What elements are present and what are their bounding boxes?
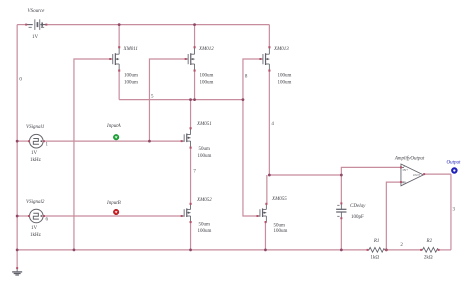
svg-text:100um: 100um [278, 73, 292, 78]
wire left vertical (net 0) [16, 25, 18, 250]
transistor XM052 (NMOS) [182, 204, 191, 222]
junction node4 T [268, 174, 271, 177]
svg-text:XM052: XM052 [196, 198, 212, 203]
svg-text:50um: 50um [274, 224, 286, 229]
wire XM055 source to ground rail [264, 222, 266, 250]
wire node4 horizontal to cap junction [269, 174, 341, 176]
junction top rail XM012 [193, 23, 196, 26]
svg-text:VSignal1: VSignal1 [26, 125, 44, 130]
pin square op-amp plus [400, 166, 402, 168]
pin square XM011 source [118, 46, 120, 48]
wire ground stub [16, 250, 18, 268]
wire battery left lead to left vertical [17, 24, 26, 26]
probe InputA [113, 134, 119, 140]
wire node2 between R1 and R2 [386, 249, 421, 251]
junction cap top T [340, 174, 343, 177]
svg-text:XM055: XM055 [271, 197, 287, 202]
pin square XM012 source [194, 46, 196, 48]
svg-text:VSignal2: VSignal2 [26, 200, 45, 205]
pin square VSignal1 right [43, 140, 45, 142]
op-amp plus glyph [403, 164, 421, 184]
junction rail cap bottom [340, 249, 343, 252]
svg-text:1kHz: 1kHz [30, 233, 42, 238]
source VSignal1 [30, 134, 44, 148]
pin square CDelay bottom [340, 217, 342, 219]
pin square R1 right [385, 249, 387, 251]
svg-text:R2: R2 [426, 239, 433, 244]
svg-text:8: 8 [245, 75, 248, 80]
probe InputB [113, 209, 119, 215]
source VSignal2 [30, 209, 44, 223]
resistor R1 [368, 247, 386, 252]
pin square ground [16, 267, 18, 269]
pin square XM013 drain [268, 70, 270, 72]
junction left vertical VSignal2 [16, 215, 19, 218]
wire XM011 gate loop to ground [74, 59, 110, 250]
svg-text:50um: 50um [199, 147, 211, 152]
junction node5 XM051 drain [189, 98, 192, 101]
svg-text:100um: 100um [124, 73, 138, 78]
transistor XM012 (PMOS) [186, 47, 195, 70]
pin square XM051 source [190, 147, 192, 149]
junction node5 XM012 drain [193, 98, 196, 101]
svg-text:100um: 100um [274, 229, 288, 234]
pin square XM011 gate [109, 58, 111, 60]
wire cap top lead [340, 175, 342, 204]
junction rail XM011 gate ground [73, 249, 76, 252]
svg-text:100um: 100um [200, 80, 214, 85]
pin square XM055 drain [265, 203, 267, 205]
wire InputA line [44, 140, 182, 142]
wire XM011 source to rail [118, 25, 120, 47]
svg-text:4: 4 [271, 122, 274, 127]
pin square VSignal2 left [28, 215, 30, 217]
capacitor CDelay [336, 203, 346, 218]
wire XM055 drain to node4 [266, 175, 268, 204]
svg-text:InputB: InputB [106, 201, 121, 206]
pin square op-amp minus [400, 181, 402, 183]
pin square op-amp out [423, 173, 425, 175]
svg-text:5: 5 [151, 95, 154, 100]
svg-text:XM051: XM051 [196, 122, 212, 127]
battery VSource [26, 19, 46, 30]
svg-text:IN-: IN- [403, 180, 408, 184]
pin square XM055 source [265, 221, 267, 223]
junction node2 feedback [385, 249, 388, 252]
junction rail XM052 source [189, 249, 192, 252]
svg-text:VSource: VSource [28, 9, 46, 14]
svg-text:100um: 100um [278, 80, 292, 85]
wire R2 right to output vertical [438, 249, 451, 251]
svg-text:100um: 100um [124, 80, 138, 85]
ground [12, 268, 22, 275]
svg-text:CDelay: CDelay [350, 204, 366, 209]
transistor XM011 (PMOS) [110, 47, 119, 70]
probe Output [452, 168, 456, 172]
svg-text:1V: 1V [31, 151, 38, 156]
svg-text:100um: 100um [198, 154, 212, 159]
svg-text:XM013: XM013 [273, 47, 289, 52]
wire XM012 gate loop to InputA [149, 59, 185, 141]
wire XM012 source to rail [194, 25, 196, 47]
svg-text:XM011: XM011 [123, 47, 138, 52]
pin square XM055 gate [256, 215, 258, 217]
plus mark VSignal2 [41, 215, 43, 217]
pin square XM051 drain [190, 127, 192, 129]
wire VSignal1 left lead [17, 140, 29, 142]
wire XM051 source to XM052 drain node 7 [190, 148, 192, 204]
wire op-amp minus feedback to node2 [386, 182, 401, 250]
wire XM013 gate loop node 8 to XM055 gate [243, 59, 260, 216]
svg-text:XM012: XM012 [198, 47, 214, 52]
pin square battery right [45, 24, 47, 26]
pin square R2 left [420, 249, 422, 251]
wire XM013 drain to node4 junction [268, 71, 270, 175]
wire XM013 source to rail [268, 25, 270, 47]
wire cap bottom to ground rail [340, 218, 342, 250]
svg-text:1kHz: 1kHz [30, 158, 42, 163]
op-amp U1 AmplifyOutput [401, 164, 423, 186]
pin square R2 right [438, 249, 440, 251]
svg-text:100pF: 100pF [351, 215, 364, 220]
svg-text:3: 3 [453, 208, 456, 213]
pin square XM011 drain [118, 70, 120, 72]
wire node 5 horizontal [119, 99, 243, 101]
wire XM052 source to ground rail [190, 222, 192, 250]
svg-text:IN+: IN+ [403, 168, 409, 172]
junction node5 node8 vertical [242, 98, 245, 101]
pin square XM012 gate [185, 58, 187, 60]
svg-text:100um: 100um [198, 229, 212, 234]
svg-text:OUT: OUT [413, 173, 421, 177]
junction top rail XM011 [118, 23, 121, 26]
pin square VSignal1 left [28, 140, 30, 142]
svg-text:1V: 1V [31, 226, 38, 231]
svg-text:InputA: InputA [106, 124, 122, 129]
pin square battery left [25, 24, 27, 26]
pin square XM013 gate [259, 58, 261, 60]
pin square XM052 drain [190, 203, 192, 205]
wire InputB line [44, 215, 182, 217]
wire VSignal2 left lead [17, 215, 29, 217]
wire XM011 drain drop to node5 [118, 71, 120, 100]
plus mark VSignal1 [41, 140, 43, 142]
junction left vertical VSignal1 [16, 140, 19, 143]
transistor XM013 (PMOS) [260, 47, 269, 70]
junction InputA XM012 gate [148, 140, 151, 143]
wire op-amp output lead [425, 173, 451, 175]
svg-text:1: 1 [46, 143, 49, 148]
svg-text:Output: Output [447, 160, 462, 165]
wire bottom ground rail [17, 249, 367, 251]
transistor XM055 (NMOS) [257, 204, 266, 222]
resistor R2 [421, 247, 439, 252]
svg-text:50um: 50um [199, 223, 211, 228]
pin square VSignal2 right [43, 215, 45, 217]
pin square CDelay top [340, 202, 342, 204]
wire XM051 drain to node5 [190, 100, 192, 129]
transistor XM051 (NMOS) [182, 128, 191, 147]
wire output vertical [450, 174, 452, 250]
wire top rail from battery to XM013 drop [46, 24, 269, 26]
pin square XM052 source [190, 221, 192, 223]
svg-text:2: 2 [400, 243, 403, 248]
pin square XM052 gate [181, 215, 183, 217]
svg-text:1kΩ: 1kΩ [370, 256, 379, 261]
pin square XM013 source [268, 46, 270, 48]
pin square XM012 drain [194, 70, 196, 72]
wire XM012 drain drop to node5 [194, 71, 196, 100]
svg-text:R1: R1 [373, 239, 380, 244]
svg-text:6: 6 [46, 218, 49, 223]
wire cap junction up and right to op-amp plus input [341, 167, 401, 175]
pin square XM051 gate [181, 140, 183, 142]
svg-text:0: 0 [19, 78, 22, 83]
junction rail ground stub [16, 249, 19, 252]
svg-text:7: 7 [193, 170, 196, 175]
svg-text:100um: 100um [200, 73, 214, 78]
svg-text:2kΩ: 2kΩ [424, 256, 433, 261]
pin square R1 left [367, 249, 369, 251]
junction rail XM055 source [264, 249, 267, 252]
svg-text:AmplifyOutput: AmplifyOutput [394, 156, 425, 161]
svg-text:1V: 1V [32, 35, 39, 40]
